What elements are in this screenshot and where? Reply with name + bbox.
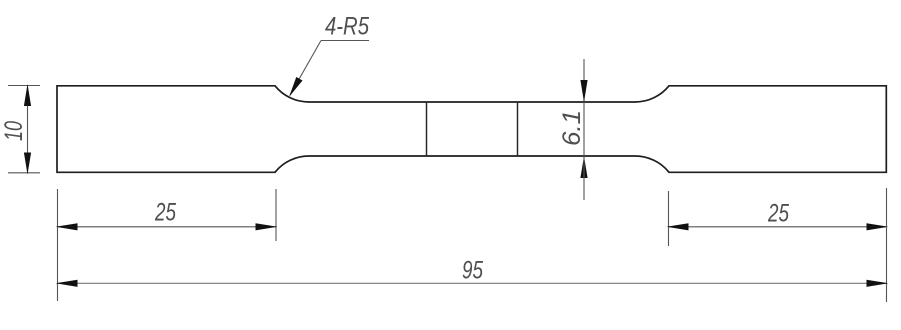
- gauge mark right: [517, 102, 519, 156]
- svg-text:6.1: 6.1: [558, 110, 586, 146]
- dimension 6.1: arrow down onto gauge top: [580, 80, 587, 102]
- dimension 6.1: arrow up onto gauge bottom: [580, 156, 587, 178]
- dimension 10: arrow down: [24, 153, 31, 175]
- svg-text:4-R5: 4-R5: [325, 13, 369, 41]
- dimension 10: extension tick top: [8, 85, 40, 87]
- svg-text:25: 25: [767, 200, 789, 228]
- dimension 25 left: dimension line: [58, 226, 276, 228]
- dimension 10: arrow up: [24, 84, 31, 106]
- dimension 95: arrow left: [56, 280, 78, 287]
- dimension 10: dimension line: [27, 86, 29, 173]
- leader 4-R5: arrowhead: [289, 77, 303, 97]
- dimension 25 left: arrow right: [256, 223, 278, 230]
- dimension 95: extension line right: [886, 188, 888, 302]
- svg-text:25: 25: [154, 199, 176, 227]
- leader 4-R5: slanted line: [290, 41, 321, 96]
- dimension 10: extension tick bottom: [8, 172, 40, 174]
- dimension 25 right: arrow right: [867, 223, 889, 230]
- dimension 95: arrow right: [867, 280, 889, 287]
- svg-text:10: 10: [0, 121, 28, 141]
- dimension 25 right: extension line left: [668, 191, 670, 246]
- dimension 6.1: line through gauge: [583, 102, 585, 156]
- specimen outline: [57, 86, 886, 173]
- dimension 6.1: upper line: [583, 59, 585, 101]
- dimension 6.1: lower line: [583, 157, 585, 200]
- dimension 25 right: arrow left: [667, 223, 689, 230]
- gauge mark left: [426, 102, 428, 156]
- dimension 95: dimension line: [58, 282, 887, 284]
- dimension 25 left: arrow left: [56, 223, 78, 230]
- dimension 25 left: extension line left: [57, 189, 59, 301]
- dimension 25 right: dimension line: [669, 226, 887, 228]
- dimension 25 left: extension line right: [275, 189, 277, 241]
- svg-text:95: 95: [462, 257, 483, 285]
- leader 4-R5: shoulder line: [321, 40, 369, 42]
